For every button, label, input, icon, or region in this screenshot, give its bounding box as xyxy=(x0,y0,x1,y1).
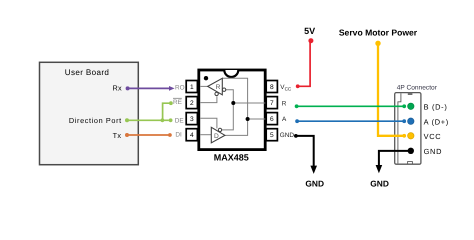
svg-text:Rx: Rx xyxy=(112,84,122,93)
pin 1 xyxy=(186,81,197,93)
svg-text:DI: DI xyxy=(175,131,182,138)
svg-text:Direction Port: Direction Port xyxy=(69,116,122,125)
pin 6 xyxy=(266,113,277,125)
svg-text:5: 5 xyxy=(270,132,274,139)
svg-text:Tx: Tx xyxy=(113,131,122,140)
svg-text:5V: 5V xyxy=(304,26,315,36)
wire Rx to RO (purple) xyxy=(128,87,170,89)
svg-text:GND: GND xyxy=(280,132,295,139)
wire connector GND to ground (black) xyxy=(379,151,411,166)
wire Direction Port to RE/DE (green) xyxy=(127,103,169,120)
wire servo power to connector VCC (yellow) xyxy=(378,43,403,136)
connector pin VCC xyxy=(408,133,414,139)
svg-text:VCC: VCC xyxy=(424,132,442,141)
pin 3 xyxy=(186,113,197,125)
internal net B xyxy=(222,90,266,130)
pin 2 xyxy=(186,97,197,109)
wire MAX485 GND to ground (black) xyxy=(296,136,314,166)
driver enable bubble xyxy=(218,128,221,131)
svg-text:DE: DE xyxy=(175,117,184,124)
wire Tx to DI (orange) xyxy=(127,134,168,136)
junction node B xyxy=(231,101,235,105)
svg-text:GND: GND xyxy=(305,178,324,188)
svg-text:1: 1 xyxy=(190,84,194,91)
connector pin B xyxy=(408,103,414,109)
wire A to connector (blue) xyxy=(297,120,403,122)
svg-text:A (D+): A (D+) xyxy=(424,118,449,127)
svg-text:Servo Motor Power: Servo Motor Power xyxy=(339,27,418,37)
svg-text:4P Connector: 4P Connector xyxy=(397,84,438,91)
svg-text:RE: RE xyxy=(173,99,182,106)
pin 7 xyxy=(266,97,277,109)
User Board box xyxy=(40,62,139,164)
pin 5 xyxy=(266,129,277,141)
svg-text:A: A xyxy=(282,116,287,123)
pin-1 dimple xyxy=(204,76,208,80)
internal wire RO to receiver xyxy=(200,85,207,87)
svg-text:6: 6 xyxy=(270,116,274,123)
internal wire RE to receiver enable xyxy=(200,96,217,102)
svg-text:4: 4 xyxy=(190,132,194,139)
wire VCC to 5V (red) xyxy=(298,42,310,87)
svg-text:7: 7 xyxy=(270,100,274,107)
svg-text:CC: CC xyxy=(285,86,292,91)
svg-text:MAX485: MAX485 xyxy=(214,152,249,162)
svg-text:2: 2 xyxy=(190,100,194,107)
internal wire DI to driver xyxy=(200,134,211,136)
junction node A xyxy=(246,117,250,121)
svg-text:B (D-): B (D-) xyxy=(424,103,448,112)
internal net A xyxy=(222,78,265,135)
svg-text:3: 3 xyxy=(190,116,194,123)
svg-text:D: D xyxy=(214,133,219,140)
pin 4 xyxy=(186,129,197,141)
notch (pin-1 end index) xyxy=(224,70,238,77)
svg-text:GND: GND xyxy=(370,179,389,189)
wire B to connector (green) xyxy=(297,105,403,107)
svg-text:GND: GND xyxy=(424,147,443,156)
receiver input bump xyxy=(222,88,225,91)
connector 4P housing xyxy=(395,93,421,165)
svg-text:8: 8 xyxy=(270,84,274,91)
connector pin A xyxy=(408,118,414,124)
driver D triangle xyxy=(211,127,225,143)
svg-text:RO: RO xyxy=(175,84,185,91)
pin 8 xyxy=(266,81,277,93)
svg-text:R: R xyxy=(216,84,221,91)
node 5V xyxy=(308,38,313,43)
connector pin GND xyxy=(408,148,414,154)
svg-text:User Board: User Board xyxy=(65,68,109,77)
internal wire DE to driver enable xyxy=(200,118,217,128)
IC MAX485 body xyxy=(199,70,265,150)
receiver enable bubble xyxy=(215,92,218,95)
receiver R triangle xyxy=(208,78,223,95)
svg-text:R: R xyxy=(282,100,287,107)
